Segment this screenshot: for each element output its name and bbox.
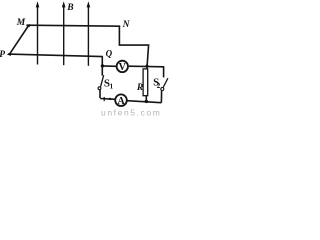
svg-text:A: A: [117, 96, 125, 107]
svg-text:B: B: [66, 3, 73, 13]
svg-text:M: M: [16, 18, 26, 28]
svg-text:V: V: [119, 62, 127, 73]
svg-text:1: 1: [110, 82, 114, 90]
svg-text:unfen5.com: unfen5.com: [101, 108, 161, 118]
svg-text:P: P: [0, 50, 5, 60]
svg-text:N: N: [122, 20, 131, 30]
svg-text:Q: Q: [106, 49, 113, 59]
svg-text:R: R: [136, 83, 143, 93]
svg-text:2: 2: [157, 82, 161, 90]
